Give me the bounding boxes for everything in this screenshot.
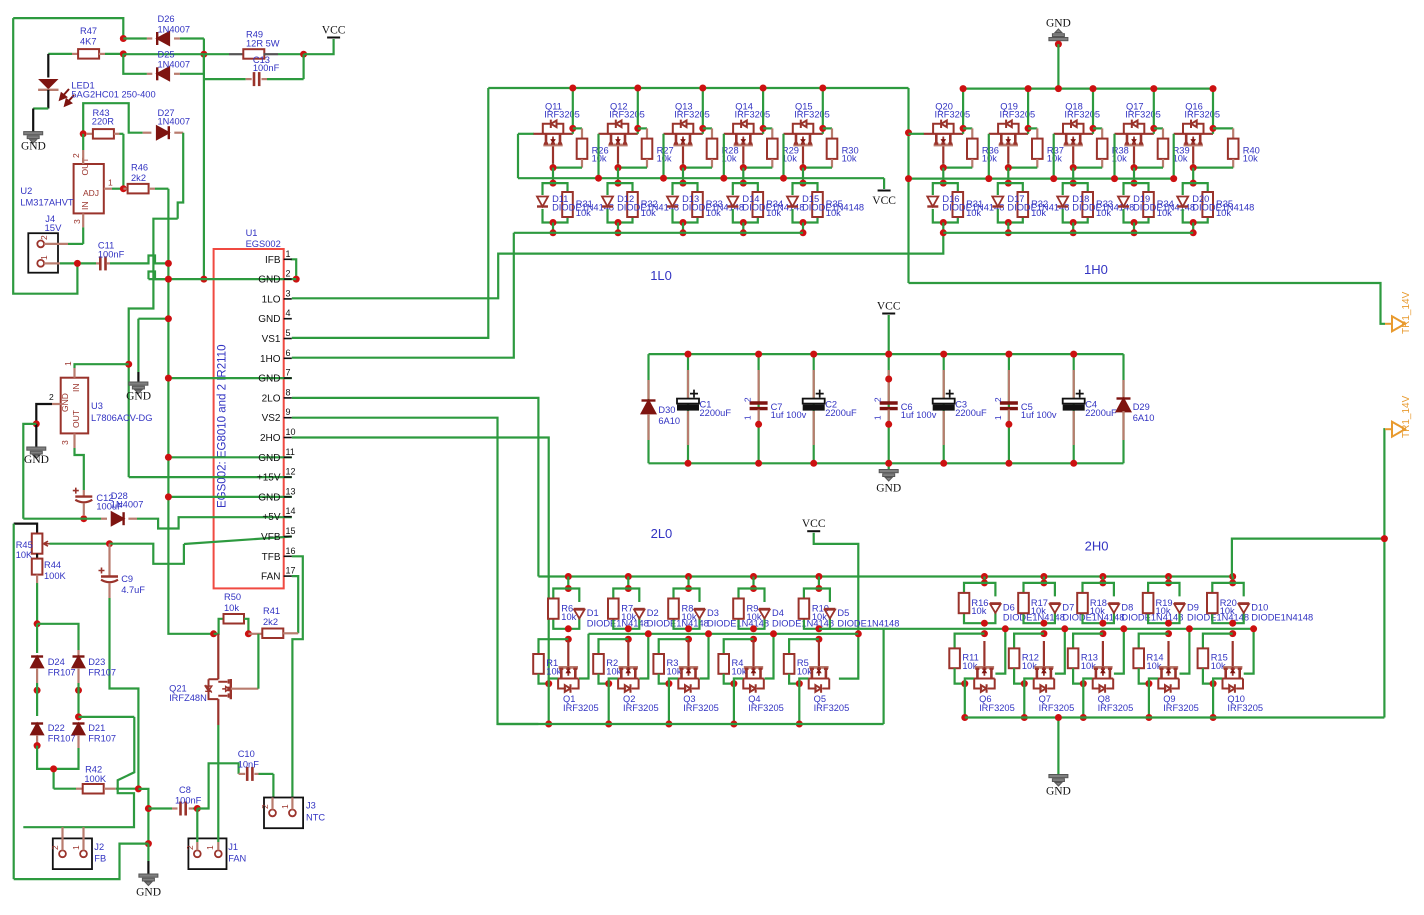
wire Q2 source down [608, 684, 610, 724]
svg-text:IRF3205: IRF3205 [794, 110, 830, 120]
svg-text:100nF: 100nF [98, 250, 125, 260]
wire cap bank top rail [649, 353, 1124, 355]
wire pin11 GND row [168, 456, 291, 458]
wire wiper to VFB [110, 544, 184, 564]
gate-cell D9 R14 [1165, 573, 1172, 580]
junction R50 right [245, 630, 252, 637]
junction pin11 rail [165, 454, 172, 461]
svg-text:D21: D21 [88, 723, 105, 733]
wire Q9 source down [1148, 684, 1150, 718]
svg-text:GND: GND [258, 314, 280, 325]
svg-text:D2: D2 [647, 608, 659, 618]
svg-text:D8: D8 [1121, 602, 1133, 612]
resistor R9 10k [733, 599, 744, 619]
wire pin12 +15V row [129, 476, 292, 478]
transistor Q5 IRF3205 [818, 641, 820, 666]
junction Q13 source [680, 164, 687, 171]
gate-cell D6 R11 [981, 573, 988, 580]
wire R43 loop over to D27 [83, 103, 143, 134]
wire source to cell [1133, 168, 1135, 184]
svg-text:FR107: FR107 [88, 734, 116, 744]
svg-text:10k: 10k [706, 208, 721, 218]
svg-text:GND: GND [21, 141, 46, 153]
wire Q5 source down [798, 684, 800, 724]
junction cell bottom [625, 625, 632, 632]
diode D13 [667, 197, 678, 207]
wire R43 right down to ADJ node [122, 134, 124, 189]
wire Q1 source down [548, 684, 550, 724]
svg-text:FB: FB [94, 854, 106, 864]
wire source to cell [942, 168, 944, 184]
wire 1H0 left vertical [907, 88, 909, 283]
svg-text:FAN: FAN [261, 572, 280, 583]
junction gnd row [145, 840, 152, 847]
power VCC cap bank [882, 313, 895, 315]
wire 2L0 bus up to 2H0 gate bus [819, 629, 884, 724]
svg-text:L7806ACV-DG: L7806ACV-DG [91, 413, 153, 423]
svg-text:VS2: VS2 [262, 413, 281, 424]
svg-text:D9: D9 [1187, 602, 1199, 612]
svg-text:10k: 10k [1220, 606, 1235, 616]
wire source to cell [552, 168, 554, 184]
svg-text:IRF3205: IRF3205 [683, 703, 719, 713]
svg-text:D5: D5 [837, 608, 849, 618]
J1 pin2 lead up [196, 842, 198, 850]
transistor Q2 IRF3205 [627, 641, 629, 666]
junction C8 J1 [194, 805, 201, 812]
wire D27 output squiggle [178, 133, 184, 219]
wire 2L0 drain bus [589, 633, 859, 635]
svg-text:3: 3 [60, 440, 70, 445]
svg-text:R44: R44 [44, 560, 61, 570]
svg-text:J2: J2 [94, 842, 104, 852]
svg-text:2: 2 [49, 392, 54, 402]
Q21 gate wire right [231, 688, 259, 690]
svg-text:2: 2 [286, 269, 291, 279]
wire left long vertical [13, 524, 15, 880]
junction cell bottom [1099, 620, 1106, 627]
junction C11 rail [165, 260, 172, 267]
svg-text:IRF3205: IRF3205 [1227, 703, 1263, 713]
wire node B vertical [203, 39, 205, 55]
diode D28 1N4007 [101, 518, 107, 520]
capacitor C3 2200uF [943, 354, 945, 463]
wire Q6 source down [964, 684, 966, 718]
resistor R33 [1082, 192, 1093, 217]
svg-text:IRFZ48N: IRFZ48N [169, 693, 207, 703]
wire 2HO pin10 route [292, 438, 549, 684]
junction Q20 gate [905, 129, 912, 136]
transistor Q3 IRF3205 [687, 641, 689, 666]
svg-text:2200uF: 2200uF [825, 408, 857, 418]
svg-text:1L0: 1L0 [650, 268, 672, 283]
wire 1HO pin6 route [292, 233, 514, 358]
resistor R26 10k [573, 127, 582, 129]
svg-text:10k: 10k [1216, 208, 1231, 218]
wire R30 to source [803, 167, 832, 169]
svg-text:VCC: VCC [802, 518, 826, 530]
wire R27 to source [618, 167, 647, 169]
svg-text:D29: D29 [1133, 402, 1150, 412]
junction cell bottom [550, 219, 557, 226]
svg-text:100K: 100K [84, 774, 107, 784]
svg-text:D22: D22 [48, 723, 65, 733]
svg-text:D4: D4 [772, 608, 784, 618]
resistor R42 100K [54, 788, 76, 790]
ground GND bottom-left [147, 844, 149, 861]
diode D17 [992, 197, 1003, 207]
svg-text:15: 15 [286, 526, 296, 536]
svg-text:15V: 15V [45, 223, 63, 234]
gate-cell D12 R32 [608, 183, 619, 195]
diode D10 [1238, 603, 1249, 613]
gate-cell D1 R1 [565, 573, 572, 580]
svg-text:13: 13 [286, 486, 296, 496]
Q21 source down [217, 699, 219, 725]
diode D9 [1174, 603, 1185, 613]
svg-text:1N4007: 1N4007 [158, 117, 191, 127]
svg-text:IRF3205: IRF3205 [935, 110, 971, 120]
svg-text:GND: GND [1046, 17, 1071, 29]
resistor R38 10k [1093, 127, 1102, 129]
connector J2 FB [53, 838, 92, 869]
wire U3 gnd to +5V rail [23, 424, 36, 519]
ground GND top-left [24, 132, 43, 144]
svg-text:U3: U3 [91, 401, 103, 411]
capacitor C4 2200uF [1073, 354, 1075, 463]
node B junction [200, 51, 207, 58]
svg-text:IRF3205: IRF3205 [1000, 110, 1036, 120]
resistor R31 [562, 192, 573, 217]
capacitor C13 100nF [204, 78, 246, 80]
junction wiper C9 [106, 540, 113, 547]
wire R29 to source [743, 167, 772, 169]
resistor R13 gate 10k [1073, 634, 1103, 649]
resistor R46 2k2 [123, 188, 127, 190]
diode D29 6A10 [1122, 354, 1124, 463]
wire C9 down to divider node [110, 598, 139, 789]
wire R28 to source [683, 167, 712, 169]
svg-text:220R: 220R [92, 117, 115, 127]
svg-text:ADJ: ADJ [83, 188, 99, 198]
wire R26 to source [553, 167, 582, 169]
svg-text:D25: D25 [158, 50, 175, 60]
gate-cell D5 R5 [815, 573, 822, 580]
svg-text:8: 8 [286, 387, 291, 397]
diode D20 [1177, 197, 1188, 207]
J1 pin1 lead up [217, 842, 219, 850]
svg-text:EGS002: EGS002 [246, 239, 281, 249]
resistor R34 [1143, 192, 1154, 217]
wire pin4 gnd drop [137, 319, 139, 372]
wire 1LO pin3 route [292, 233, 944, 298]
J3 pin leads [271, 798, 273, 810]
junction C6 top [885, 376, 892, 383]
diode D5 [824, 609, 835, 619]
wire Q20 gate stub [909, 133, 925, 135]
diode D19 [1118, 197, 1129, 207]
svg-text:IRF3205: IRF3205 [735, 110, 771, 120]
svg-text:100nF: 100nF [175, 796, 202, 806]
svg-text:R46: R46 [131, 163, 148, 173]
resistor R29 10k [763, 127, 772, 129]
wire D23 top loop [37, 624, 78, 650]
junction Q4 source [730, 680, 737, 687]
junction Q10 source [1210, 680, 1217, 687]
resistor R18 10k [1077, 593, 1088, 613]
svg-text:D1: D1 [587, 608, 599, 618]
junction C12 +5V row [80, 515, 87, 522]
capacitor C6 1uf 100v [888, 354, 890, 463]
wire pin1 IFB loop [291, 259, 297, 279]
J4 pin1 wire [44, 262, 60, 264]
svg-text:U1: U1 [246, 228, 258, 238]
resistor R36 10k [963, 127, 972, 129]
svg-text:1N4007: 1N4007 [158, 60, 191, 70]
wire Q8 source down [1082, 684, 1084, 718]
svg-text:DIODE1N4148: DIODE1N4148 [837, 618, 899, 628]
gate-cell D4 R4 [750, 573, 757, 580]
wire pin13 GND row [168, 496, 291, 498]
resistor R11 gate 10k [955, 634, 985, 649]
svg-text:VCC: VCC [877, 301, 901, 313]
wire to VCC [304, 39, 334, 54]
svg-text:1uf 100v: 1uf 100v [1021, 410, 1057, 420]
resistor R2 gate 10k [599, 639, 629, 654]
resistor R20 10k [1207, 593, 1218, 613]
svg-text:10nF: 10nF [238, 760, 260, 770]
resistor R39 10k [1154, 127, 1163, 129]
gate-cell D15 R35 [793, 183, 804, 195]
diode D4 [759, 609, 770, 619]
wire Q14 drain to bus [762, 88, 764, 134]
wire 2H0 bottom bus [965, 716, 1385, 718]
svg-text:IRF3205: IRF3205 [1064, 110, 1100, 120]
junction Q15 source [800, 164, 807, 171]
wire Q12 drain to bus [637, 88, 639, 134]
svg-text:16: 16 [286, 546, 296, 556]
svg-text:TFB: TFB [262, 552, 281, 563]
resistor R27 10k [638, 127, 647, 129]
diode D23 FR107 [77, 650, 79, 656]
gate-cell D14 R34 [733, 183, 744, 195]
power VCC 1L0 gate bus [883, 178, 885, 189]
wire source to cell [802, 168, 804, 184]
gate-cell D8 R13 [1099, 573, 1106, 580]
junction Q1 source [545, 680, 552, 687]
transistor Q7 IRF3205 [1043, 641, 1045, 666]
transistor Q1 IRF3205 [567, 641, 569, 666]
wire source to cell [1072, 168, 1074, 184]
svg-text:10k: 10k [747, 612, 762, 622]
wire R37 to source [1008, 167, 1037, 169]
svg-text:FR107: FR107 [48, 668, 76, 678]
diode D27 [143, 132, 152, 134]
svg-text:TR1_14V: TR1_14V [1401, 395, 1412, 438]
junction +15V U3 node [125, 361, 132, 368]
wire 2H0 drain drops [995, 629, 1005, 674]
ground GND 2H0 [1057, 718, 1059, 775]
svg-text:R45: R45 [16, 540, 33, 550]
resistor R14 gate 10k [1139, 634, 1169, 649]
svg-text:1: 1 [993, 415, 1003, 420]
gate-cell D17 R32 [998, 183, 1009, 195]
svg-text:GND: GND [258, 453, 280, 464]
resistor R35 [812, 192, 823, 217]
svg-text:2L0: 2L0 [651, 526, 673, 541]
resistor R41 2k2 [248, 633, 262, 635]
wire Q20 drain to bus [962, 89, 964, 134]
svg-text:10k: 10k [576, 208, 591, 218]
svg-text:IRF3205: IRF3205 [1039, 703, 1075, 713]
resistor R4 gate 10k [724, 639, 754, 654]
svg-text:3: 3 [286, 288, 291, 298]
svg-text:GND: GND [1046, 786, 1071, 798]
svg-text:NTC: NTC [306, 813, 325, 823]
svg-text:100K: 100K [44, 571, 67, 581]
gate-cell D11 R31 [543, 183, 554, 195]
wire Q11 drain to bus [572, 88, 574, 134]
wire pin14 +5V row jog [137, 517, 292, 528]
wire R45 wiper row [50, 543, 110, 545]
wire Q3 source down [668, 684, 670, 724]
svg-text:R47: R47 [80, 26, 97, 36]
wire LED1 to GND [47, 90, 49, 109]
svg-text:2: 2 [993, 397, 1003, 402]
resistor R30 10k [823, 127, 832, 129]
junction cell bottom [800, 219, 807, 226]
U3 pin2 GND lead [52, 403, 61, 405]
svg-text:GND: GND [258, 492, 280, 503]
wire inter-cell gate drops 1H0 [988, 134, 990, 179]
resistor R33 [692, 192, 703, 217]
ground GND pin4 [129, 382, 148, 394]
resistor R1 gate 10k [539, 639, 569, 654]
svg-text:14: 14 [286, 506, 296, 516]
junction cell bottom [1070, 219, 1077, 226]
junction Q11 source [550, 164, 557, 171]
wire ladder bottom loop [37, 746, 54, 789]
resistor R37 10k [1028, 127, 1037, 129]
gate-cell D20 R35 [1183, 183, 1194, 195]
svg-text:1: 1 [63, 361, 73, 366]
junction Q18 source [1070, 164, 1077, 171]
svg-text:10k: 10k [1031, 208, 1046, 218]
resistor R47 [48, 53, 72, 55]
wire cap bank bottom rail [649, 462, 1124, 464]
diode D3 [694, 609, 705, 619]
wire R36 to source [943, 167, 972, 169]
wire R45 top loop [14, 524, 37, 534]
svg-text:D24: D24 [48, 657, 65, 667]
gate-cell D3 R3 [685, 573, 692, 580]
junction R47/D25 node [120, 50, 127, 57]
diode D15 [787, 197, 798, 207]
wire Q10 source down [1212, 684, 1214, 718]
resistor R3 gate 10k [659, 639, 689, 654]
resistor R49 12R 5W [229, 53, 243, 55]
svg-text:1H0: 1H0 [1084, 262, 1108, 277]
svg-text:6A10: 6A10 [658, 416, 680, 426]
svg-text:2200uF: 2200uF [700, 408, 732, 418]
wire 1L0 gate bus [518, 177, 884, 179]
power VCC 2L0 [807, 530, 820, 532]
svg-text:10k: 10k [971, 606, 986, 616]
resistor R7 10k [608, 599, 619, 619]
svg-text:10k: 10k [224, 603, 239, 613]
svg-text:GND: GND [136, 887, 161, 899]
diode D24 FR107 [36, 624, 38, 653]
wire 1L0 cell bottom bus [514, 232, 803, 234]
wire 2H0 top feed [1232, 539, 1385, 577]
capacitor C7 1uf 100v [757, 354, 759, 463]
diode D26 [123, 37, 147, 39]
svg-text:D3: D3 [707, 608, 719, 618]
resistor R15 gate 10k [1203, 634, 1233, 649]
diode D8 [1108, 603, 1119, 613]
resistor R17 10k [1018, 593, 1029, 613]
node 203.9 vertical to pin2 GND [203, 54, 205, 279]
wire source to cell [617, 168, 619, 184]
svg-text:VFB: VFB [261, 532, 281, 543]
junction Q5 source [796, 680, 803, 687]
wire 2L0 bottom bus [498, 723, 884, 725]
junction VCC node [300, 51, 307, 58]
wire inter-cell gate drops 1L0 [597, 134, 599, 178]
wire left border vertical [13, 18, 77, 294]
gate-cell D19 R34 [1124, 183, 1135, 195]
svg-text:4K7: 4K7 [80, 37, 97, 47]
svg-text:IRF3205: IRF3205 [623, 703, 659, 713]
svg-text:10K: 10K [16, 550, 33, 560]
svg-text:D6: D6 [1003, 602, 1015, 612]
svg-text:VCC: VCC [322, 25, 346, 37]
U1 pin stubs and numbers [284, 258, 292, 260]
svg-text:FAN: FAN [228, 854, 246, 864]
capacitor C5 1uf 100v [1008, 354, 1010, 463]
gate-cell D10 R15 [1229, 573, 1236, 580]
junction Q8 source [1080, 680, 1087, 687]
wire R39 to source [1134, 167, 1163, 169]
transistor Q21 IRFZ48N [217, 634, 219, 680]
svg-text:R41: R41 [263, 606, 280, 616]
wire top-left border loop [13, 18, 123, 38]
svg-text:IN: IN [71, 384, 81, 393]
svg-text:1HO: 1HO [260, 354, 281, 365]
junction Q20 source [940, 164, 947, 171]
svg-text:J1: J1 [228, 842, 238, 852]
svg-text:5: 5 [286, 328, 291, 338]
svg-text:5AG2HC01 250-400: 5AG2HC01 250-400 [71, 90, 155, 100]
svg-text:10k: 10k [812, 612, 827, 622]
svg-text:2: 2 [39, 235, 49, 240]
IC U3 L7806ACV-DG box [61, 378, 88, 434]
wire +15V feed down [129, 219, 178, 477]
svg-text:9: 9 [286, 407, 291, 417]
svg-text:1: 1 [205, 845, 215, 850]
junction cell bottom [815, 625, 822, 632]
IC U2 LM317AHVT box [74, 164, 104, 213]
diode D14 [727, 197, 738, 207]
svg-text:10k: 10k [1090, 606, 1105, 616]
junction cell bottom [1040, 620, 1047, 627]
diode D16 [927, 197, 938, 207]
svg-text:17: 17 [286, 566, 296, 576]
ground GND U3 [35, 424, 37, 447]
svg-text:10k: 10k [1157, 208, 1172, 218]
svg-text:2: 2 [71, 153, 81, 158]
wire Q13 drain to bus [702, 88, 704, 134]
